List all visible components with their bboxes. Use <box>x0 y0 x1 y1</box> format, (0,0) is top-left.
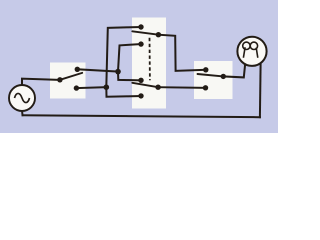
contact crossover bottom pole <box>155 85 160 90</box>
contact S1 common <box>57 77 62 82</box>
wire bottom return <box>23 115 260 117</box>
contact S1 lower throw <box>74 85 79 90</box>
AC sine symbol <box>15 93 30 102</box>
lamp E1 <box>237 37 266 66</box>
wire crossover bottom pole to S3 lower contact <box>158 86 205 89</box>
wire node D2 down to crossover bottom-lower contact <box>106 87 141 97</box>
wire lamp right lead down <box>259 64 262 117</box>
wire S1 upper throw to node D1 <box>77 69 118 71</box>
switch box S3 highlight <box>194 61 233 99</box>
wire S3 pole to lamp left lead <box>223 66 245 78</box>
wire S1 lower throw to node D2 <box>76 86 106 89</box>
lamp filament loops <box>243 42 258 58</box>
wire crossover top pole to S3 upper contact <box>158 35 205 71</box>
dashed mechanical link of crossover switch <box>149 38 151 80</box>
contact crossover bottom lower-left <box>138 93 143 98</box>
contact S3 upper throw <box>203 67 208 72</box>
lever of crossover bottom section <box>132 83 158 87</box>
contact crossover bottom upper-left <box>138 78 143 83</box>
contact S3 pole <box>221 74 226 79</box>
contact S3 lower throw <box>203 85 208 90</box>
contact S1 upper throw <box>75 67 80 72</box>
lever of crossover top section <box>132 31 158 34</box>
wire node D1 up to crossover top-lower contact <box>118 44 141 72</box>
lever of switch S1 <box>60 73 82 80</box>
wire AC bottom <box>21 110 24 115</box>
wire AC top to S1 common <box>22 79 58 85</box>
switch box S2 (crossover) highlight <box>132 18 166 109</box>
junction node D2 <box>104 84 110 90</box>
lever of switch S3 <box>198 74 224 76</box>
switch box S1 highlight <box>50 63 86 99</box>
contact crossover top upper-left <box>138 24 143 29</box>
AC source G1 <box>9 85 35 111</box>
wire node D1 down to crossover bottom-upper contact <box>118 72 141 81</box>
contact crossover top pole <box>156 32 161 37</box>
junction node D1 <box>115 69 121 75</box>
contact crossover top lower-left <box>138 41 143 46</box>
wire node D2 up to crossover top-left contact <box>106 27 141 87</box>
